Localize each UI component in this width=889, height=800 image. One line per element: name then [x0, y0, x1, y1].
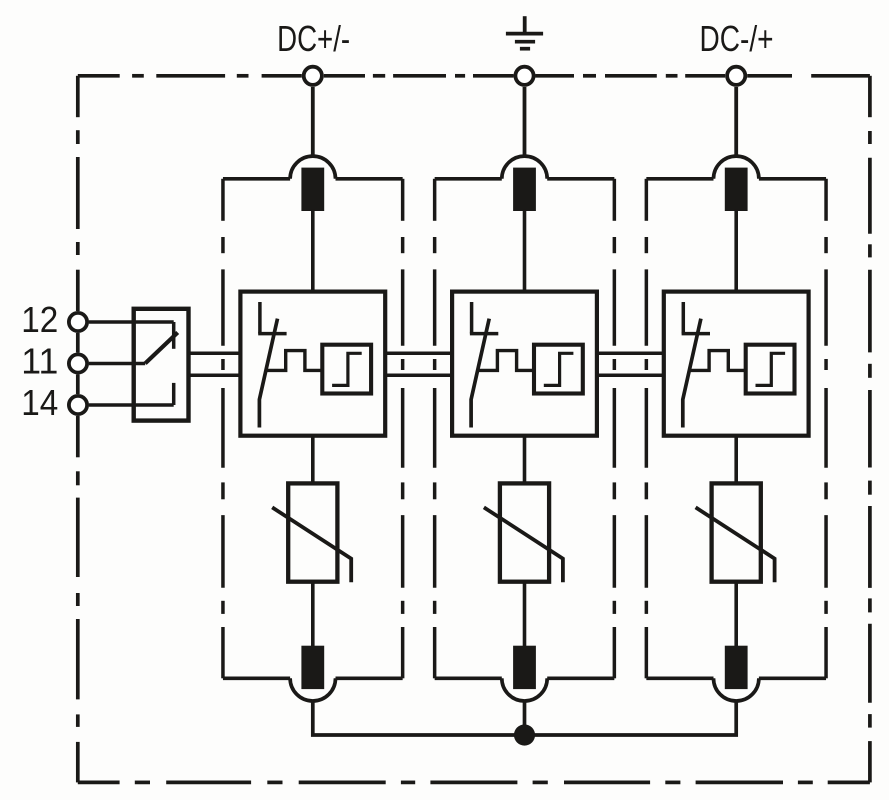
protection module boundary bottom edge, module 1 (DC+/-): [223, 676, 290, 680]
step function symbol, module 2 (PE): [544, 353, 574, 385]
wire monitoring device to varistor, module 2 (PE): [523, 436, 527, 484]
protection module boundary right border, module 3 (DC-/+): [824, 179, 828, 221]
wire module 1 down to PE bus: [313, 700, 525, 735]
wire PE terminal down to disconnector, module 2 (PE): [523, 87, 527, 158]
varistor RV3, module 3 (DC-/+): [712, 483, 761, 581]
svg-text:12: 12: [21, 299, 58, 340]
disconnect switch contact post, module 1 (DC+/-): [258, 302, 262, 334]
wire monitoring device to varistor, module 3 (DC-/+): [734, 436, 738, 484]
hysteresis control box, module 2 (PE): [534, 345, 583, 394]
wire DC+/- terminal down to disconnector, module 1 (DC+/-): [311, 87, 315, 158]
thermal disconnector arc (bottom), module 3 (DC-/+): [714, 678, 759, 701]
changeover switch blade: [145, 333, 178, 364]
wire DC-/+ terminal down to disconnector, module 3 (DC-/+): [734, 87, 738, 158]
disconnect switch contact post, module 2 (PE): [470, 302, 474, 334]
thermal disconnector element (top fuse), module 2 (PE): [513, 168, 536, 211]
protection module boundary left border, module 3 (DC-/+): [645, 179, 649, 221]
svg-text:14: 14: [21, 382, 58, 423]
monitoring/disconnection device box, module 3 (DC-/+): [664, 292, 809, 436]
wire contact to module 1 (upper): [189, 351, 241, 355]
wire disconnector to monitoring device, module 3 (DC-/+): [734, 210, 738, 292]
hysteresis control box, module 1 (DC+/-): [322, 345, 371, 394]
protection module boundary right border, module 1 (DC+/-): [401, 179, 405, 221]
thermal disconnector arc (bottom), module 2 (PE): [502, 678, 547, 701]
monitoring/disconnection device box, module 1 (DC+/-): [240, 292, 385, 436]
protection module boundary top edge, module 1 (DC+/-): [223, 177, 290, 181]
wire module 1 to module 2 (upper): [385, 351, 452, 355]
terminal 14: [69, 396, 87, 414]
trigger pulse wire, module 3 (DC-/+): [689, 351, 746, 371]
thermal disconnector element (bottom fuse), module 3 (DC-/+): [725, 646, 748, 689]
svg-text:DC-/+: DC-/+: [700, 18, 774, 59]
ground symbol (PE earth): [523, 16, 527, 33]
thermal disconnector element (top fuse), module 3 (DC-/+): [725, 168, 748, 211]
step function symbol, module 3 (DC-/+): [756, 353, 786, 385]
protection module boundary bottom edge, module 2 (PE): [435, 676, 502, 680]
monitoring/disconnection device box, module 2 (PE): [452, 292, 597, 436]
terminal DC-/+: [727, 67, 745, 85]
wire disconnector to monitoring device, module 2 (PE): [523, 210, 527, 292]
wire varistor to bottom disconnector, module 1 (DC+/-): [311, 582, 315, 647]
terminal DC+/-: [304, 67, 322, 85]
thermal disconnector arc (bottom), module 1 (DC+/-): [290, 678, 335, 701]
device enclosure boundary - bottom border (dash-dot): [78, 781, 120, 785]
protection module boundary bottom edge, module 3 (DC-/+): [646, 676, 713, 680]
thermal disconnector arc (top), module 3 (DC-/+): [714, 156, 759, 179]
wire contact to module 1 (lower): [189, 373, 241, 377]
wire disconnector to monitoring device, module 1 (DC+/-): [311, 210, 315, 292]
thermal disconnector arc (top), module 2 (PE): [502, 156, 547, 179]
device enclosure boundary - right border (dash-dot): [868, 76, 872, 117]
disconnect switch blade, module 2 (PE): [471, 319, 489, 428]
wire module 1 to module 2 (lower): [385, 373, 452, 377]
terminal 11: [69, 354, 87, 372]
protection module boundary top edge, module 2 (PE): [435, 177, 502, 181]
device enclosure boundary - left border (dash-dot): [76, 76, 80, 117]
protection module boundary left border, module 2 (PE): [433, 179, 437, 221]
contact 14 fixed stub: [172, 383, 176, 405]
trigger pulse wire, module 1 (DC+/-): [266, 351, 323, 371]
protection module boundary top edge, module 3 (DC-/+): [646, 177, 713, 181]
wire module 3 down to PE bus: [525, 700, 737, 735]
trigger pulse wire, module 2 (PE): [478, 351, 535, 371]
thermal disconnector element (top fuse), module 1 (DC+/-): [301, 168, 324, 211]
varistor RV1, module 1 (DC+/-): [288, 483, 337, 581]
wire varistor to bottom disconnector, module 2 (PE): [523, 582, 527, 647]
contact 12 fixed stub: [172, 322, 176, 349]
svg-text:11: 11: [21, 341, 58, 382]
protection module boundary right border, module 2 (PE): [613, 179, 617, 221]
wire module 2 to module 3 (upper): [597, 351, 664, 355]
wire terminal 11 to contact: [89, 362, 145, 366]
wire module 2 to module 3 (lower): [597, 373, 664, 377]
disconnect switch contact post, module 3 (DC-/+): [682, 302, 686, 334]
wire terminal 14 to contact: [89, 403, 174, 407]
protection module boundary left border, module 1 (DC+/-): [221, 179, 225, 221]
device enclosure boundary - top border (dash-dot): [78, 74, 120, 78]
junction node on PE bus: [514, 724, 535, 745]
disconnect switch blade, module 1 (DC+/-): [259, 319, 277, 428]
terminal PE (earth): [515, 67, 533, 85]
terminal 12: [69, 313, 87, 331]
disconnect switch blade, module 3 (DC-/+): [683, 319, 701, 428]
wire terminal 12 to contact: [89, 320, 174, 324]
thermal disconnector element (bottom fuse), module 1 (DC+/-): [301, 646, 324, 689]
wire monitoring device to varistor, module 1 (DC+/-): [311, 436, 315, 484]
step function symbol, module 1 (DC+/-): [332, 353, 362, 385]
hysteresis control box, module 3 (DC-/+): [746, 345, 795, 394]
wire module 2 down to PE bus: [523, 700, 527, 735]
varistor RV2, module 2 (PE): [500, 483, 549, 581]
thermal disconnector element (bottom fuse), module 2 (PE): [513, 646, 536, 689]
wire varistor to bottom disconnector, module 3 (DC-/+): [734, 582, 738, 647]
svg-text:DC+/-: DC+/-: [277, 18, 350, 59]
remote signalling contact box K1: [134, 309, 189, 421]
thermal disconnector arc (top), module 1 (DC+/-): [290, 156, 335, 179]
